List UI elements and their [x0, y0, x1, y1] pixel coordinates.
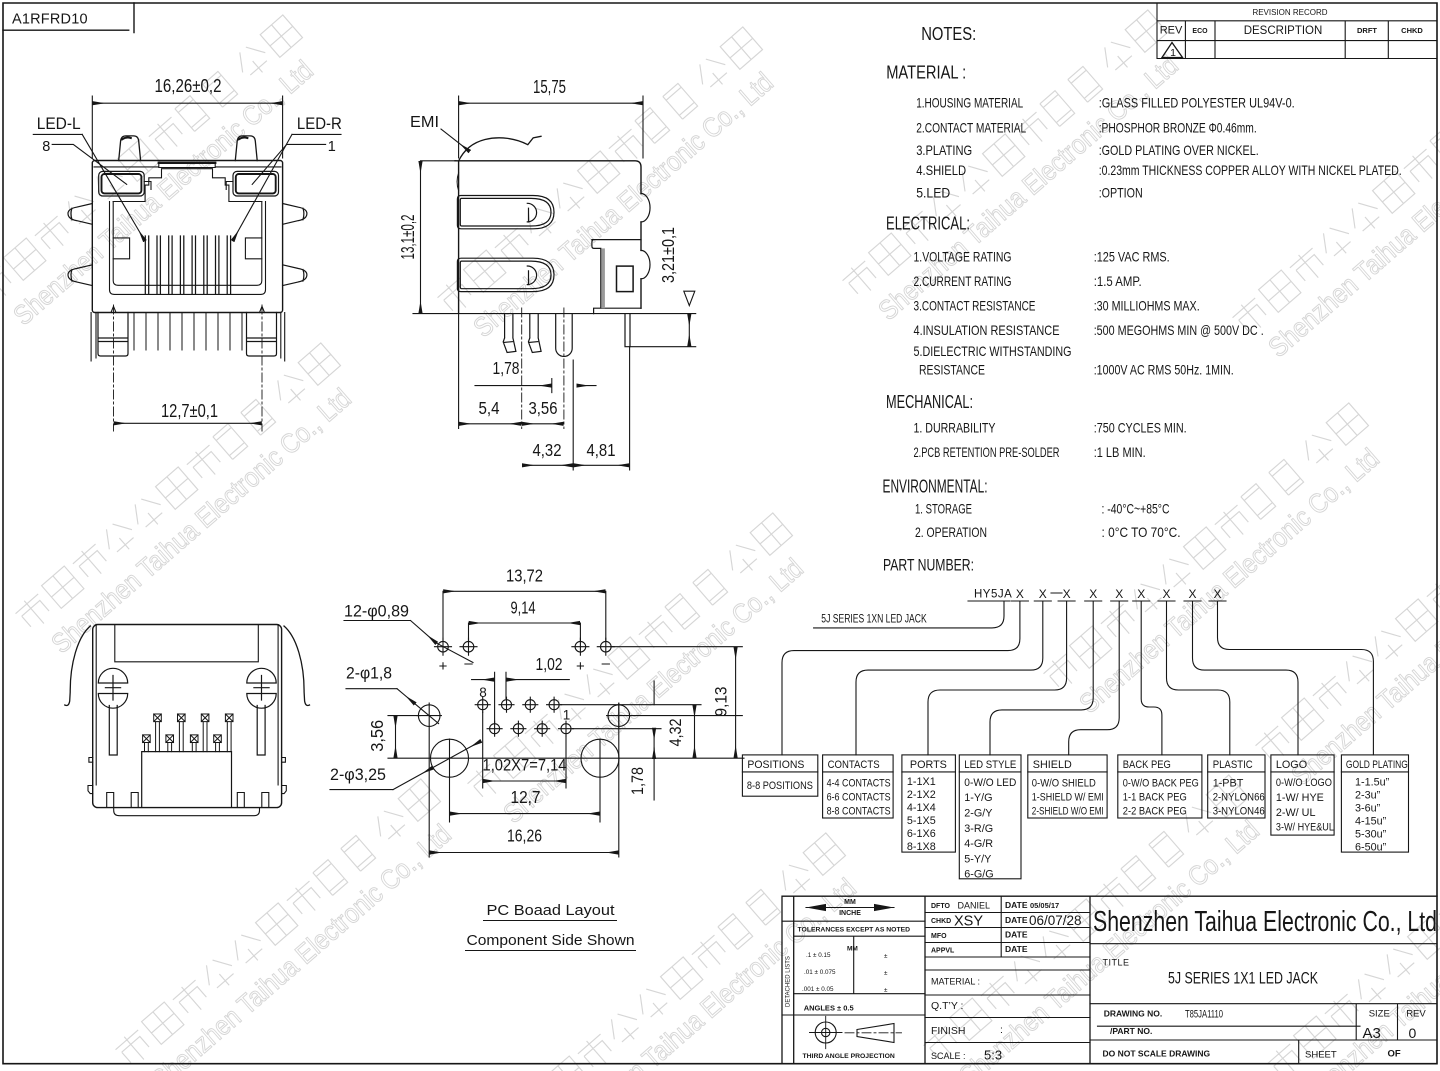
svg-text:3,21±0,1: 3,21±0,1	[658, 227, 678, 283]
svg-text:NOTES:: NOTES:	[921, 24, 976, 44]
svg-text::125 VAC RMS.: :125 VAC RMS.	[1094, 250, 1170, 265]
front top inner shelf	[94, 162, 281, 167]
svg-text:PORTS: PORTS	[910, 759, 947, 771]
svg-text::1000V AC RMS 50Hz. 1MIN.: :1000V AC RMS 50Hz. 1MIN.	[1094, 363, 1234, 378]
roughness symbol	[684, 291, 695, 305]
svg-text:1: 1	[1170, 47, 1176, 59]
box POSITIONS	[742, 755, 817, 796]
svg-text:TITLE: TITLE	[1103, 958, 1130, 968]
box PLASTIC	[1208, 755, 1265, 818]
svg-text:5-30u”: 5-30u”	[1355, 829, 1387, 841]
svg-text:3,56: 3,56	[529, 398, 558, 418]
svg-text:X: X	[1039, 587, 1047, 601]
contact prong lower	[457, 258, 554, 291]
bottom pins row far	[154, 714, 233, 752]
projection symbol	[810, 1016, 902, 1048]
mount hole small left	[417, 705, 441, 727]
svg-text:1. STORAGE: 1. STORAGE	[915, 502, 972, 517]
bottom top cap	[115, 625, 258, 662]
svg-text:1.VOLTAGE RATING: 1.VOLTAGE RATING	[914, 250, 1012, 265]
svg-text:HY5JA: HY5JA	[974, 589, 1012, 601]
svg-text:1-SHIELD W/ EMI: 1-SHIELD W/ EMI	[1032, 792, 1104, 804]
svg-text:/PART NO.: /PART NO.	[1110, 1026, 1152, 1036]
svg-text:MATERIAL :: MATERIAL :	[886, 63, 966, 83]
dimension 3,56 pcb	[388, 716, 420, 757]
svg-text:SCALE :: SCALE :	[931, 1051, 966, 1061]
front top latch bump right	[235, 136, 257, 161]
svg-text:X: X	[1089, 587, 1097, 601]
contact prong upper	[457, 196, 554, 229]
title block frame	[782, 896, 1437, 1063]
svg-text:4,32: 4,32	[666, 719, 685, 747]
connector X7 to PLASTIC	[1167, 601, 1230, 755]
svg-text:APPVL: APPVL	[931, 948, 955, 955]
svg-text:DATE: DATE	[1005, 944, 1028, 954]
dimension 4,32 pcb	[694, 706, 696, 757]
svg-text:8-1X8: 8-1X8	[907, 841, 936, 853]
svg-text:POSITIONS: POSITIONS	[747, 759, 804, 771]
svg-text:REV: REV	[1160, 25, 1183, 37]
svg-text:4-1X4: 4-1X4	[907, 802, 936, 814]
dimension 12,7±0,1	[115, 422, 261, 424]
svg-text:0-W/O LOGO: 0-W/O LOGO	[1276, 777, 1332, 789]
connector X9 to GOLD PLATING	[1218, 601, 1374, 755]
svg-text:1-1X1: 1-1X1	[907, 776, 936, 788]
jack pin 8	[475, 697, 490, 712]
svg-text:X: X	[1115, 587, 1123, 601]
dimension 12,7 pcb	[451, 813, 599, 815]
svg-text:LOGO: LOGO	[1276, 759, 1307, 771]
svg-text:4-4 CONTACTS: 4-4 CONTACTS	[827, 778, 891, 790]
dimension 13,1±0,2	[421, 161, 457, 313]
svg-text:5J SERIES 1XN LED JACK: 5J SERIES 1XN LED JACK	[821, 613, 927, 625]
side extension lines	[459, 314, 630, 470]
svg-text:13,1±0,2: 13,1±0,2	[397, 215, 418, 260]
revision record table	[1157, 3, 1437, 59]
svg-text:1,02: 1,02	[536, 654, 563, 674]
slot right	[257, 706, 265, 756]
svg-text:: 0°C TO 70°C.: : 0°C TO 70°C.	[1102, 525, 1181, 540]
title block middle rows	[925, 896, 1090, 1042]
EMI tab left upper	[68, 204, 92, 225]
svg-text:3-6u”: 3-6u”	[1355, 803, 1381, 815]
svg-text:2-3u”: 2-3u”	[1355, 790, 1381, 802]
dimension 5,4	[460, 423, 521, 425]
svg-text:SHEET: SHEET	[1305, 1050, 1337, 1061]
svg-text:6-6 CONTACTS: 6-6 CONTACTS	[827, 792, 891, 804]
svg-text:9,14: 9,14	[511, 598, 536, 618]
svg-text:2-φ1,8: 2-φ1,8	[346, 664, 392, 683]
mm inch arrow	[806, 904, 894, 911]
slot left	[109, 706, 117, 756]
svg-text:PC Boaad Layout: PC Boaad Layout	[487, 902, 616, 919]
svg-text:12,7: 12,7	[511, 787, 541, 807]
dimension 1,78 side	[475, 379, 596, 393]
svg-text:PLASTIC: PLASTIC	[1213, 759, 1253, 771]
svg-text:±: ±	[884, 987, 888, 994]
svg-text:2-2 BACK PEG: 2-2 BACK PEG	[1123, 806, 1187, 818]
svg-text:3.CONTACT RESISTANCE: 3.CONTACT RESISTANCE	[914, 298, 1036, 313]
svg-text:RESISTANCE: RESISTANCE	[919, 363, 985, 378]
screw feature left	[98, 668, 127, 708]
svg-text:2.CURRENT RATING: 2.CURRENT RATING	[914, 274, 1012, 289]
EMI spring finger	[459, 136, 541, 161]
round post	[556, 314, 573, 357]
svg-text:X: X	[1137, 587, 1145, 601]
shield leg side	[625, 314, 696, 347]
svg-text::750 CYCLES MIN.: :750 CYCLES MIN.	[1094, 421, 1187, 436]
title block right rows	[1090, 944, 1437, 1064]
svg-text:MFO: MFO	[931, 933, 947, 940]
dimension 3,56 side	[523, 423, 563, 425]
drawing code block A1RFRD10	[3, 3, 134, 33]
svg-text:THIRD ANGLE PROJECTION: THIRD ANGLE PROJECTION	[803, 1053, 895, 1060]
dimension 3,21±0,1	[688, 315, 690, 346]
svg-text:–: –	[602, 655, 611, 672]
screw feature right	[247, 668, 276, 708]
jack pin 4	[523, 697, 538, 712]
svg-text:0-W/O LED: 0-W/O LED	[964, 777, 1016, 789]
svg-text:15,75: 15,75	[533, 77, 566, 97]
connector X8 to LOGO	[1193, 601, 1299, 755]
series label underline	[814, 601, 1004, 628]
svg-text:8-8 POSITIONS: 8-8 POSITIONS	[747, 780, 813, 792]
svg-text:+: +	[576, 658, 585, 675]
part number underlines	[968, 593, 1226, 601]
side hook right	[282, 758, 287, 794]
svg-text:1,78: 1,78	[628, 767, 647, 795]
svg-text:2. OPERATION: 2. OPERATION	[915, 525, 987, 540]
svg-text:05/05/17: 05/05/17	[1030, 901, 1059, 910]
svg-text:SHIELD: SHIELD	[1033, 759, 1072, 771]
EMI tab left lower	[68, 265, 92, 286]
label LED-R leader	[233, 134, 341, 240]
svg-text:2-G/Y: 2-G/Y	[964, 808, 992, 820]
svg-text:A3: A3	[1363, 1025, 1381, 1042]
svg-text::1.5 AMP.: :1.5 AMP.	[1094, 274, 1142, 289]
front top latch bump left	[119, 136, 141, 161]
LED hole 1	[435, 638, 452, 655]
dimension 9,14	[469, 623, 581, 641]
connector X4 to LED STYLE	[990, 601, 1093, 755]
svg-text:3-R/G: 3-R/G	[964, 823, 993, 835]
svg-text:INCHE: INCHE	[839, 910, 861, 917]
svg-text:06/07/28: 06/07/28	[1029, 913, 1082, 928]
svg-text:8: 8	[42, 139, 50, 155]
box CONTACTS	[823, 755, 894, 818]
svg-text:PART NUMBER:: PART NUMBER:	[883, 557, 974, 575]
svg-text:5-1X5: 5-1X5	[907, 815, 936, 827]
svg-text::0.23mm THICKNESS COPPER ALLOY: :0.23mm THICKNESS COPPER ALLOY WITH NICK…	[1099, 163, 1402, 178]
bottom EMI wire right	[284, 626, 310, 706]
svg-text:.1 ± 0.15: .1 ± 0.15	[806, 952, 831, 959]
svg-text:2.PCB RETENTION PRE-SOLDER: 2.PCB RETENTION PRE-SOLDER	[914, 445, 1060, 460]
svg-text:LED STYLE: LED STYLE	[964, 759, 1016, 771]
mount hole big right	[581, 739, 619, 777]
pcb label underlines	[465, 921, 636, 951]
bottom pins row near	[143, 735, 222, 752]
svg-text:9,13: 9,13	[712, 687, 731, 717]
box GOLD PLATING	[1341, 755, 1408, 852]
svg-text:X: X	[1213, 587, 1221, 601]
svg-text:DRAWING NO.: DRAWING NO.	[1104, 1009, 1163, 1019]
LED hole 4	[597, 638, 614, 655]
svg-text::30 MILLIOHMS MAX.: :30 MILLIOHMS MAX.	[1094, 298, 1200, 313]
EMI tab right lower	[283, 265, 307, 286]
svg-text:±: ±	[884, 970, 888, 977]
svg-text:DRFT: DRFT	[1357, 26, 1377, 35]
dimension 1,02X7=7,14	[483, 712, 566, 788]
svg-text:X: X	[1162, 587, 1170, 601]
svg-text:0-W/O SHIELD: 0-W/O SHIELD	[1032, 778, 1096, 790]
svg-text:2-SHIELD W/O EMI: 2-SHIELD W/O EMI	[1032, 806, 1104, 818]
svg-text:4.INSULATION RESISTANCE: 4.INSULATION RESISTANCE	[914, 323, 1060, 338]
LED window left	[99, 171, 145, 196]
svg-text:4-G/R: 4-G/R	[964, 838, 993, 850]
svg-text:DO NOT SCALE DRAWING: DO NOT SCALE DRAWING	[1103, 1049, 1211, 1059]
cavity latch notch right	[245, 238, 261, 259]
svg-text:5-Y/Y: 5-Y/Y	[964, 853, 991, 865]
side body outline	[455, 161, 650, 313]
label LED-L leader	[33, 134, 144, 240]
svg-text:4,32: 4,32	[533, 440, 562, 460]
svg-text:2-W/ UL: 2-W/ UL	[1276, 807, 1316, 819]
svg-text:DATE: DATE	[1005, 930, 1028, 940]
center housing block	[142, 752, 232, 807]
dimension 4,32 side	[523, 464, 572, 466]
EMI label leader	[441, 129, 469, 151]
PCB baseline	[413, 313, 696, 315]
svg-text:2-1X2: 2-1X2	[907, 789, 936, 801]
svg-text:1. DURRABILITY: 1. DURRABILITY	[914, 421, 996, 436]
peg centerlines	[522, 308, 564, 429]
svg-text:8-8 CONTACTS: 8-8 CONTACTS	[827, 806, 891, 818]
svg-text:LED-R: LED-R	[297, 115, 342, 133]
cavity latch notch left	[113, 238, 129, 259]
svg-text:±: ±	[884, 953, 888, 960]
revision triangle 1	[1162, 43, 1183, 58]
svg-text:MECHANICAL:: MECHANICAL:	[886, 392, 973, 412]
mount hole big left	[431, 739, 469, 777]
svg-text:X: X	[1016, 587, 1024, 601]
box LOGO	[1271, 755, 1334, 835]
dimension 1,02 pitch	[472, 672, 570, 723]
connector X5 to SHIELD	[1069, 601, 1120, 755]
svg-text:Component Side Shown: Component Side Shown	[467, 932, 635, 949]
title block text	[786, 899, 1438, 1063]
svg-text:BACK PEG: BACK PEG	[1123, 759, 1171, 771]
box PORTS	[902, 755, 956, 852]
EMI tab right upper	[283, 204, 307, 225]
label 8 leader	[52, 144, 127, 184]
side hook left	[88, 758, 93, 794]
LED window right	[233, 171, 279, 196]
side lower block	[592, 240, 641, 314]
svg-text:1: 1	[328, 139, 336, 155]
front body shield outline	[92, 161, 282, 313]
svg-text:5.LED: 5.LED	[916, 186, 950, 201]
LED hole 3	[572, 638, 589, 655]
box LED STYLE	[959, 755, 1021, 879]
locating peg B	[528, 314, 541, 353]
connector X2 to CONTACTS	[856, 601, 1043, 755]
svg-text:4.SHIELD: 4.SHIELD	[916, 163, 966, 178]
mount leg left	[98, 313, 128, 357]
svg-text::: :	[1000, 1024, 1003, 1036]
jack pin 3	[535, 721, 550, 736]
svg-text:: -40°C~+85°C: : -40°C~+85°C	[1102, 502, 1170, 517]
svg-text:CHKD: CHKD	[931, 918, 951, 925]
svg-text:4-15u”: 4-15u”	[1355, 816, 1387, 828]
title block left zone lines	[782, 921, 925, 1015]
dimension 16,26±0,2	[92, 96, 282, 158]
svg-text::1 LB MIN.: :1 LB MIN.	[1094, 445, 1146, 460]
svg-text:CONTACTS: CONTACTS	[828, 759, 880, 771]
label 1 leader	[252, 144, 325, 184]
svg-text:DESCRIPTION: DESCRIPTION	[1244, 25, 1323, 37]
svg-text:1: 1	[563, 708, 571, 723]
svg-text:SIZE: SIZE	[1369, 1009, 1390, 1020]
svg-text:0-W/O BACK PEG: 0-W/O BACK PEG	[1123, 778, 1199, 790]
svg-text:ENVIRONMENTAL:: ENVIRONMENTAL:	[883, 477, 988, 497]
box SHIELD	[1028, 755, 1107, 818]
svg-text:DETACHED LISTS: DETACHED LISTS	[786, 956, 792, 1007]
svg-text:16,26±0,2: 16,26±0,2	[155, 76, 222, 96]
svg-text:TOLERANCES EXCEPT AS NOTED: TOLERANCES EXCEPT AS NOTED	[798, 927, 911, 934]
LED hole 2	[460, 638, 477, 655]
jack pin 2	[547, 697, 562, 712]
svg-text:6-G/G: 6-G/G	[964, 869, 993, 881]
svg-text:Q.T’Y :: Q.T’Y :	[931, 1000, 963, 1012]
dimension 9,13	[735, 648, 737, 757]
dimension 15,75	[459, 96, 643, 158]
bottom EMI wire left	[65, 626, 91, 706]
label 12-φ0,89 leader	[344, 621, 473, 663]
bottom edge notches	[111, 306, 265, 312]
svg-text:8: 8	[479, 685, 487, 700]
svg-text:.001 ± 0.05: .001 ± 0.05	[802, 986, 834, 993]
svg-text:EMI: EMI	[410, 114, 439, 131]
svg-text:16,26: 16,26	[507, 826, 542, 846]
leg centerlines	[114, 305, 263, 431]
svg-text::PHOSPHOR BRONZE Φ0.46mm.: :PHOSPHOR BRONZE Φ0.46mm.	[1099, 121, 1257, 136]
svg-text:MM: MM	[847, 946, 858, 953]
mount hole small right	[607, 703, 631, 727]
bottom tab slots	[107, 793, 269, 807]
dimension 13,72	[443, 591, 606, 640]
connector X6 to BACK PEG	[1141, 601, 1162, 755]
svg-text:OF: OF	[1388, 1049, 1401, 1060]
bottom band	[114, 808, 260, 816]
svg-text:1,02X7=7,14: 1,02X7=7,14	[483, 757, 567, 775]
svg-text:X: X	[1063, 587, 1071, 601]
shield skirt lines	[91, 313, 285, 362]
part number boxes text	[747, 759, 1408, 881]
svg-text:0: 0	[1409, 1025, 1417, 1041]
svg-text:4,81: 4,81	[587, 440, 616, 460]
svg-text:1.HOUSING MATERIAL: 1.HOUSING MATERIAL	[916, 96, 1023, 111]
svg-text:1-W/ HYE: 1-W/ HYE	[1276, 792, 1324, 804]
jack pin 7	[487, 721, 502, 736]
svg-text:+: +	[439, 658, 448, 675]
svg-text:GOLD PLATING: GOLD PLATING	[1346, 759, 1408, 771]
svg-text:FINISH: FINISH	[931, 1025, 965, 1037]
svg-text:6-1X6: 6-1X6	[907, 828, 936, 840]
dimension 16,26 pcb	[430, 852, 617, 854]
hole centerlines	[429, 703, 619, 857]
svg-text:ECO: ECO	[1192, 28, 1208, 35]
svg-text:REVISION RECORD: REVISION RECORD	[1252, 8, 1327, 17]
svg-text:LED-L: LED-L	[37, 115, 81, 133]
svg-text::500 MEGOHMS MIN @ 500V DC .: :500 MEGOHMS MIN @ 500V DC .	[1094, 323, 1264, 338]
svg-text:1-Y/G: 1-Y/G	[964, 792, 992, 804]
svg-text:2-φ3,25: 2-φ3,25	[330, 765, 386, 784]
svg-text:T85JA1110: T85JA1110	[1185, 1009, 1223, 1021]
mount leg right	[247, 313, 277, 357]
jack pin 5	[511, 721, 526, 736]
svg-text:3.PLATING: 3.PLATING	[916, 143, 972, 158]
svg-text:.01 ± 0.075: .01 ± 0.075	[804, 969, 836, 976]
svg-text::GLASS FILLED POLYESTER UL94V-: :GLASS FILLED POLYESTER UL94V-0.	[1099, 96, 1295, 111]
svg-text:3-W/ HYE&UL: 3-W/ HYE&UL	[1276, 822, 1334, 834]
box BACK PEG	[1118, 755, 1202, 818]
svg-text:–: –	[464, 655, 473, 672]
svg-text:XSY: XSY	[954, 914, 983, 930]
jack pin 6	[499, 697, 514, 712]
svg-text:2.CONTACT MATERIAL: 2.CONTACT MATERIAL	[916, 121, 1026, 136]
label 2-φ3,25 leader	[330, 741, 481, 789]
svg-text:MM: MM	[844, 899, 856, 906]
svg-text:1-1 BACK PEG: 1-1 BACK PEG	[1123, 792, 1187, 804]
svg-text:12,7±0,1: 12,7±0,1	[161, 401, 218, 421]
svg-text:REV: REV	[1406, 1009, 1426, 1020]
svg-text:3-NYLON46: 3-NYLON46	[1213, 806, 1265, 818]
jack pin 1	[559, 721, 574, 736]
socket cavity outline	[110, 169, 266, 295]
label 2-φ1,8 leader	[346, 689, 439, 724]
svg-text:ANGLES ± 0.5: ANGLES ± 0.5	[804, 1004, 854, 1013]
svg-text:DATE: DATE	[1005, 915, 1028, 925]
svg-text:2-NYLON66: 2-NYLON66	[1213, 792, 1265, 804]
pin row extension lines	[388, 647, 744, 759]
svg-text:12-φ0,89: 12-φ0,89	[344, 602, 409, 621]
locating peg A	[503, 314, 516, 353]
svg-text::GOLD PLATING OVER NICKEL.: :GOLD PLATING OVER NICKEL.	[1099, 143, 1259, 158]
svg-text:6-50u”: 6-50u”	[1355, 842, 1387, 854]
dimension 4,81	[574, 464, 628, 466]
dimension 1,78 pcb	[653, 681, 655, 800]
solder tail pins front	[134, 313, 242, 351]
svg-text:X: X	[1188, 587, 1196, 601]
contact pins front	[145, 236, 230, 294]
svg-text:ELECTRICAL:: ELECTRICAL:	[886, 213, 970, 233]
svg-text:3,56: 3,56	[367, 720, 387, 752]
svg-text:1-1.5u”: 1-1.5u”	[1355, 777, 1390, 789]
svg-text:CHKD: CHKD	[1401, 26, 1423, 35]
svg-text:5J SERIES 1X1 LED JACK: 5J SERIES 1X1 LED JACK	[1168, 969, 1318, 988]
connector X1 to POSITIONS	[782, 601, 1020, 755]
svg-text:Shenzhen Taihua Electronic Co.: Shenzhen Taihua Electronic Co., Ltd	[1093, 906, 1437, 938]
svg-text:5,4: 5,4	[479, 398, 500, 418]
svg-text:5.DIELECTRIC WITHSTANDING: 5.DIELECTRIC WITHSTANDING	[914, 344, 1072, 359]
svg-text:DANIEL: DANIEL	[958, 901, 991, 911]
svg-text:5:3: 5:3	[984, 1048, 1002, 1063]
svg-text:DFTO: DFTO	[931, 903, 950, 910]
svg-text:DATE: DATE	[1005, 900, 1028, 910]
bottom body outline	[93, 625, 282, 808]
connector X3 to PORTS	[928, 601, 1067, 755]
svg-text:13,72: 13,72	[506, 566, 543, 586]
